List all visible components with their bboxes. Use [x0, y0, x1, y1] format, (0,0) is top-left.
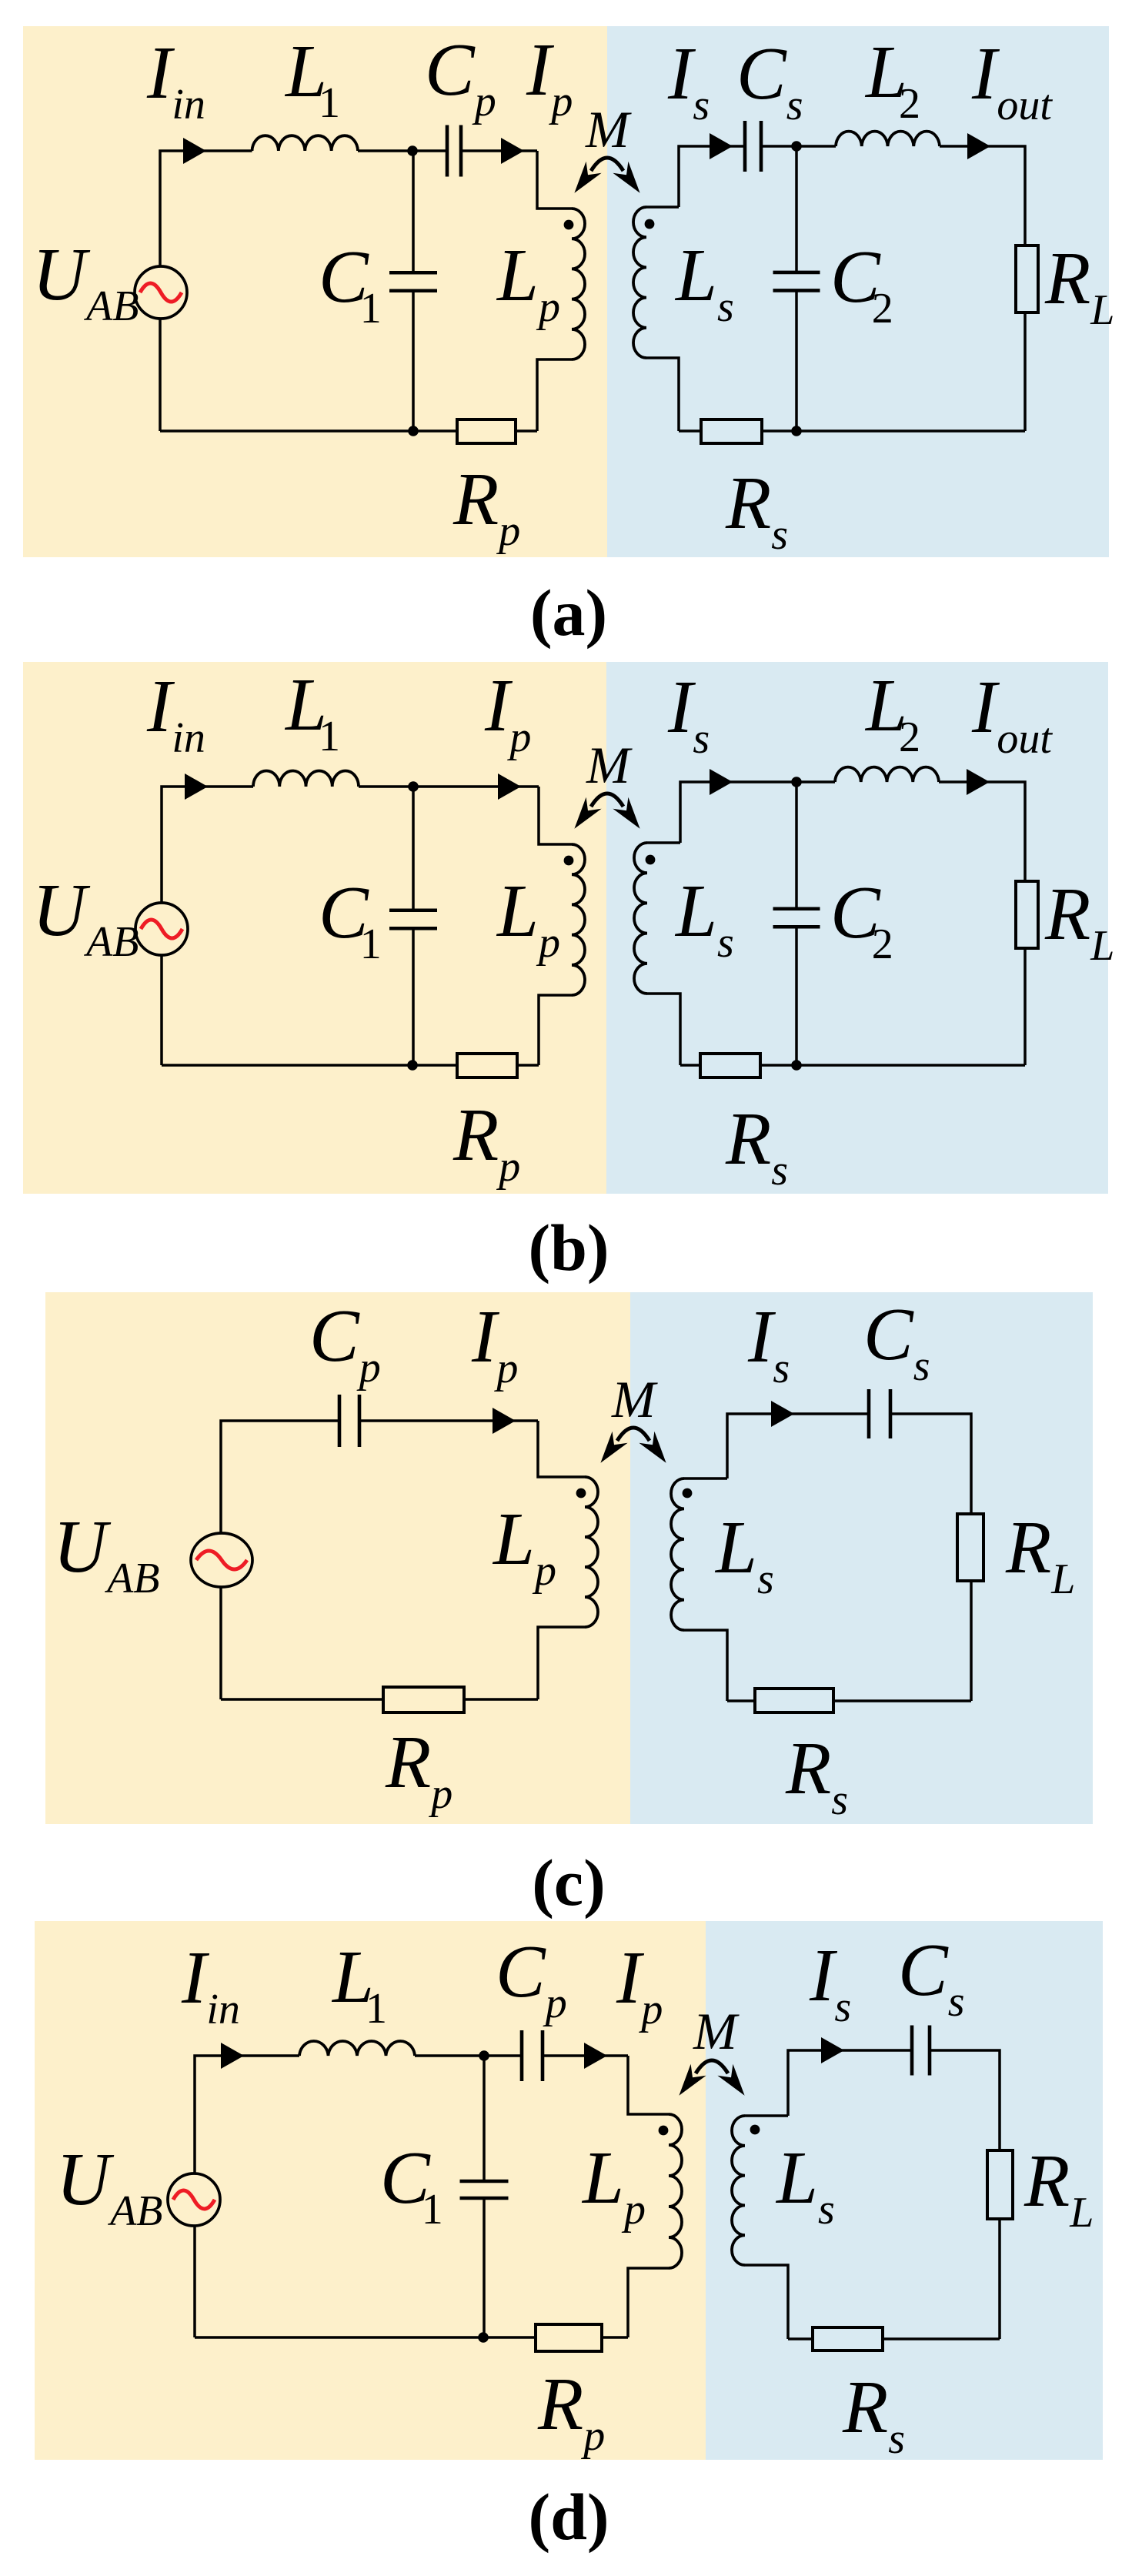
node: C1 top junction — [407, 145, 418, 156]
current arrow Is — [710, 133, 733, 159]
panel (a): LCC-LCC compensation circuit — [23, 26, 1114, 650]
wire: C1 branch — [483, 2056, 486, 2180]
capacitor Cs — [869, 1389, 890, 1438]
inductor Lp (primary coil) — [669, 2114, 682, 2268]
wire: RL bottom lead — [998, 2219, 1001, 2339]
secondary-side background (blue) — [606, 662, 1108, 1194]
wire: secondary bottom — [680, 1064, 1025, 1067]
phase dot (Ls) — [646, 855, 656, 865]
wire: primary left and top to L1 — [162, 787, 253, 1065]
capacitor Cp — [339, 1395, 359, 1447]
wire: primary bottom — [195, 2336, 628, 2339]
secondary-side background (blue) — [607, 26, 1109, 557]
current arrow Ip — [498, 773, 521, 800]
wire: top from Cp to corner — [543, 2054, 628, 2057]
current arrow Iin — [183, 138, 206, 164]
svg-text:(a): (a) — [530, 576, 607, 650]
resistor RL — [1016, 246, 1038, 312]
mutual inductance arrow M — [574, 794, 639, 829]
current arrow Iout — [967, 769, 990, 795]
wire: primary bottom — [162, 1064, 539, 1067]
wire: C1 branch — [412, 151, 415, 272]
wire: primary left and top to L1 — [160, 151, 252, 431]
mutual inductance arrow M — [600, 1428, 666, 1463]
resistor Rp — [457, 1054, 517, 1078]
capacitor C2 — [773, 909, 820, 927]
wire: Ls bottom jog and feed — [646, 358, 679, 431]
node: C1 top junction — [479, 2050, 489, 2061]
capacitor C1 — [389, 910, 437, 929]
resistor RL — [1016, 881, 1038, 948]
wire: top between L1 and Cp — [358, 149, 447, 152]
node: C1 bottom junction — [407, 1060, 418, 1071]
wire: Lp feed bottom jog — [537, 359, 572, 431]
svg-text:M: M — [611, 1370, 658, 1428]
wire: Lp feed bottom jog — [539, 995, 572, 1065]
wire: Lp feed bottom jog — [628, 2268, 669, 2337]
inductor Lp (primary coil) — [572, 209, 585, 359]
wire: Lp feed bottom jog — [538, 1627, 585, 1699]
current arrow Ip — [501, 138, 524, 164]
inductor Ls (secondary coil) — [732, 2116, 745, 2265]
svg-text:(b): (b) — [528, 1211, 609, 1285]
resistor Rs — [813, 2327, 883, 2350]
resistor Rp — [383, 1687, 464, 1712]
resistor RL — [957, 1514, 983, 1581]
voltage source UAB — [135, 903, 188, 955]
panel (c): series-series compensation circuit — [45, 1292, 1093, 1919]
capacitor C2 — [773, 272, 820, 291]
node: C1 bottom junction — [408, 426, 419, 436]
wire: top between Cs and L2 — [761, 145, 836, 148]
wire: primary bottom — [221, 1698, 538, 1701]
inductor L1 — [252, 135, 359, 151]
resistor Rp — [457, 419, 516, 443]
wire: top from L2 to RL corner — [940, 146, 1025, 246]
resistor RL — [987, 2150, 1013, 2219]
wire: Lp feed top jog — [537, 151, 572, 209]
wire: secondary top to Cs — [788, 2050, 912, 2116]
wire: Lp feed top jog — [628, 2056, 669, 2114]
svg-text:M: M — [693, 2002, 740, 2060]
voltage source UAB — [168, 2173, 220, 2226]
capacitor Cs — [745, 121, 761, 172]
capacitor Cs — [912, 2026, 930, 2076]
node: C2 top junction — [791, 141, 802, 152]
primary-side background (yellow) — [23, 26, 607, 557]
wire: secondary top to Cs — [727, 1414, 869, 1478]
phase dot (Lp) — [659, 2126, 669, 2136]
wire: RL bottom lead — [1023, 948, 1027, 1065]
node: C2 bottom junction — [791, 426, 802, 436]
wire: top from Cp to corner — [461, 149, 537, 152]
voltage source UAB — [191, 1533, 252, 1587]
inductor L2 — [836, 132, 940, 146]
wire: Ls bottom jog and feed — [647, 994, 680, 1065]
current arrow Iout — [967, 133, 990, 159]
wire: C1 branch — [412, 787, 415, 909]
capacitor Cp — [522, 2030, 543, 2081]
inductor Ls (secondary coil) — [634, 843, 647, 994]
inductor Ls (secondary coil) — [671, 1478, 684, 1630]
resistor Rs — [701, 419, 762, 443]
wire: secondary bottom — [727, 1699, 971, 1702]
current arrow Ip — [584, 2043, 607, 2069]
secondary-side background (blue) — [630, 1292, 1093, 1824]
wire: primary left and top to Cp — [221, 1421, 339, 1699]
wire: RL bottom lead — [970, 1581, 973, 1701]
current arrow Is — [771, 1401, 794, 1427]
phase dot (Ls) — [750, 2125, 760, 2135]
phase dot (Lp) — [576, 1488, 586, 1498]
mutual inductance arrow M — [574, 158, 639, 193]
wire: primary left and top to L1 — [195, 2056, 299, 2337]
wire: secondary bottom — [788, 2337, 1000, 2340]
wire: secondary bottom — [679, 429, 1025, 433]
wire: top from L2 to RL corner — [939, 782, 1025, 881]
phase dot (Lp) — [564, 220, 574, 230]
current arrow Iin — [185, 773, 208, 800]
panel (d): LCC-S compensation circuit — [35, 1921, 1103, 2554]
current arrow Ip — [493, 1408, 516, 1434]
inductor L1 — [253, 770, 359, 787]
wire: Ls top jog — [646, 205, 679, 209]
resistor Rp — [536, 2324, 602, 2351]
wire: top from Cp to corner — [359, 1419, 538, 1422]
wire: Lp feed top jog — [538, 1421, 585, 1477]
secondary-side background (blue) — [706, 1921, 1103, 2460]
node: C1 top junction — [408, 781, 419, 792]
phase dot (Ls) — [683, 1488, 693, 1498]
capacitor Cp — [447, 125, 461, 177]
wire: Ls top jog — [745, 2114, 788, 2117]
resistor Rs — [700, 1054, 760, 1078]
wire: C2 branch — [795, 146, 798, 271]
wire: secondary top to Cs — [679, 146, 745, 207]
wire: RL bottom lead — [1023, 312, 1027, 431]
svg-text:(c): (c) — [532, 1846, 605, 1919]
inductor L2 — [835, 767, 939, 782]
svg-text:M: M — [585, 100, 632, 159]
node: C2 bottom junction — [791, 1060, 802, 1071]
primary-side background (yellow) — [35, 1921, 706, 2460]
voltage source UAB — [135, 266, 187, 319]
mutual inductance arrow M — [679, 2060, 744, 2096]
phase dot (Lp) — [564, 856, 574, 866]
wire: Ls top jog — [647, 841, 680, 844]
wire: Ls bottom jog and feed — [745, 2265, 788, 2339]
inductor Lp (primary coil) — [572, 844, 585, 995]
capacitor C1 — [389, 272, 437, 291]
current arrow Iin — [221, 2043, 244, 2069]
capacitor C1 — [460, 2181, 509, 2198]
wire: top from Cs to RL corner — [890, 1414, 971, 1514]
wire: Lp feed top jog — [539, 787, 572, 844]
primary-side background (yellow) — [23, 662, 606, 1194]
wire: top from Cs to RL corner — [930, 2050, 1000, 2150]
inductor Ls (secondary coil) — [633, 207, 646, 358]
primary-side background (yellow) — [45, 1292, 630, 1824]
phase dot (Ls) — [645, 219, 655, 229]
resistor Rs — [755, 1689, 833, 1712]
wire: C2 branch — [795, 782, 798, 907]
svg-text:M: M — [586, 736, 633, 794]
inductor L1 — [299, 2041, 415, 2056]
wire: Ls top jog — [684, 1477, 727, 1480]
node: C1 bottom junction — [478, 2332, 489, 2343]
node: C2 top junction — [791, 777, 802, 787]
wire: top from L1 to corner — [359, 785, 539, 788]
wire: Ls bottom jog and feed — [684, 1630, 727, 1701]
inductor Lp (primary coil) — [585, 1477, 598, 1627]
wire: top between L1 and Cp — [415, 2054, 522, 2057]
panel (b): LCC-parallel compensation circuit — [23, 662, 1114, 1285]
current arrow Is — [710, 769, 733, 795]
svg-text:(d): (d) — [528, 2480, 609, 2554]
wire: secondary top to L2 — [680, 782, 835, 843]
current arrow Is — [821, 2037, 844, 2063]
wire: primary bottom — [160, 429, 537, 433]
